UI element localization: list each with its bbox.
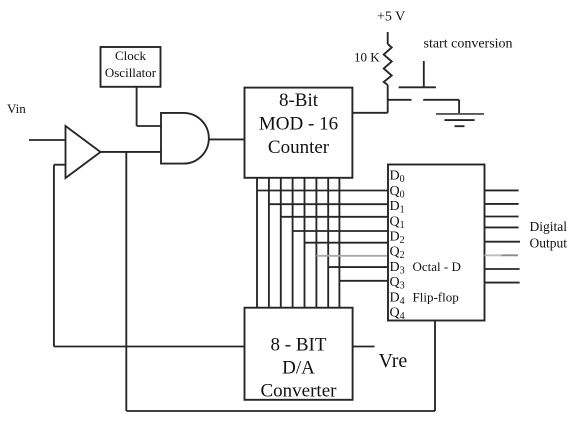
resistor 10K zigzag <box>384 44 392 85</box>
wire tap 3 to Q1 <box>281 216 388 218</box>
wire tap 6 faint <box>316 255 388 257</box>
bus vertical 7 <box>327 178 329 308</box>
wire comparator output <box>101 151 162 153</box>
wire feedback horizontal to D/A <box>54 346 245 348</box>
output line 5 <box>485 241 521 243</box>
svg-text:D/A: D/A <box>282 358 315 379</box>
bus vertical 3 <box>280 178 282 308</box>
svg-text:Output: Output <box>530 236 568 251</box>
switch button stem <box>423 61 425 87</box>
wire comparator output down <box>125 152 127 411</box>
svg-text:Clock: Clock <box>115 48 147 63</box>
bus vertical 8 <box>338 178 340 308</box>
wire feedback stub <box>54 164 66 166</box>
output line 4 <box>485 226 519 228</box>
bus vertical 2 <box>268 178 270 308</box>
wire tap 7 to D3 <box>328 266 388 268</box>
svg-text:Digital: Digital <box>530 219 568 234</box>
clock oscillator box <box>101 47 161 87</box>
svg-text:Octal - D: Octal - D <box>413 259 461 274</box>
bus vertical 4 <box>292 178 294 308</box>
wire tap 4 to D2 <box>293 230 388 232</box>
wire D/A to Vre <box>353 346 375 348</box>
wire flip-flop clock vertical <box>434 321 436 412</box>
D/A converter box <box>245 308 353 400</box>
bus vertical 6 <box>315 178 317 308</box>
svg-text:8-Bit: 8-Bit <box>279 90 319 111</box>
op-amp comparator <box>66 126 101 178</box>
output line 2 <box>485 203 519 205</box>
wire +5V lead <box>387 32 389 44</box>
octal D flip-flop box <box>388 165 485 321</box>
wire bottom horizontal <box>126 410 435 412</box>
output line 8 <box>485 282 520 284</box>
wire Vin input <box>29 139 65 141</box>
switch right contact <box>423 99 459 101</box>
wire tap 8 to Q3 <box>339 280 388 282</box>
svg-text:Vre: Vre <box>379 350 408 372</box>
wire clock to AND gate <box>137 125 161 127</box>
svg-text:Vin: Vin <box>7 101 26 116</box>
wire tap 5 to Q2 <box>305 242 389 244</box>
switch button bar <box>399 86 436 88</box>
wire right contact drop <box>458 100 460 114</box>
output line 3 <box>485 216 519 218</box>
output line 1 <box>485 189 519 191</box>
AND gate U1 <box>161 113 209 164</box>
wire tap 2 to D1 <box>269 203 388 205</box>
bus vertical 5 <box>304 178 306 308</box>
svg-text:start conversion: start conversion <box>424 37 513 52</box>
svg-text:Oscillator: Oscillator <box>105 65 157 80</box>
output line 7 <box>485 268 520 270</box>
wire feedback vertical <box>53 165 55 347</box>
svg-text:Converter: Converter <box>261 381 338 402</box>
svg-text:+5 V: +5 V <box>377 10 405 25</box>
wire resistor bottom lead <box>387 85 389 113</box>
counter box 8-Bit MOD-16 <box>245 88 353 178</box>
output line 6 faint <box>485 254 502 256</box>
bus vertical 1 <box>256 178 258 308</box>
svg-text:10 K: 10 K <box>354 50 380 65</box>
svg-text:MOD - 16: MOD - 16 <box>259 114 338 135</box>
wire AND output <box>209 138 245 140</box>
switch left contact <box>388 99 412 101</box>
wire tap 1 to Q0 <box>257 190 388 192</box>
svg-text:8 - BIT: 8 - BIT <box>271 335 327 356</box>
wire counter to resistor node <box>352 112 387 114</box>
ground <box>436 113 484 115</box>
wire clock drop <box>136 87 138 126</box>
svg-text:Flip-flop: Flip-flop <box>413 289 459 304</box>
svg-text:Counter: Counter <box>268 137 330 158</box>
